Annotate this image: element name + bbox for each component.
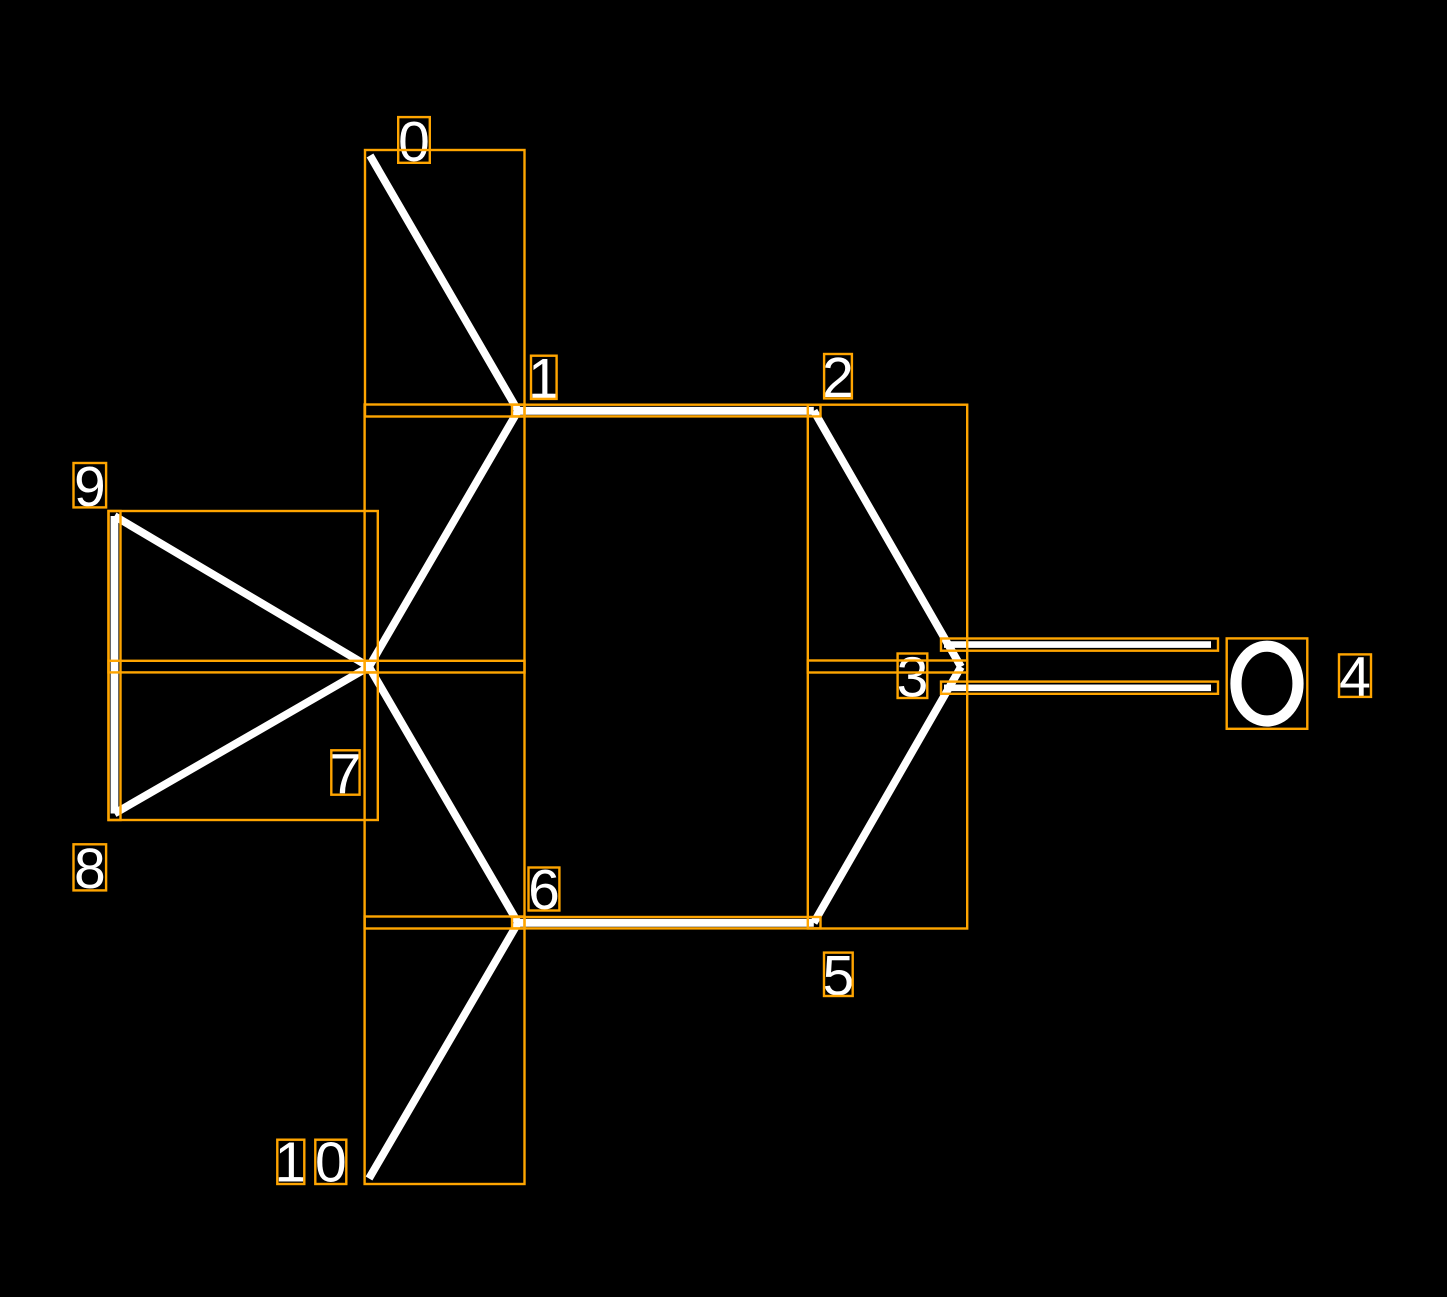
label box 5 bbox=[824, 953, 853, 996]
white molecule bonds bbox=[115, 156, 962, 1179]
box double bond top line bbox=[941, 639, 1218, 651]
bond 6-10 bbox=[369, 923, 518, 1179]
bond 5-6 bbox=[518, 919, 814, 927]
svg-text:2: 2 bbox=[822, 346, 854, 410]
box bond 0-1 bbox=[365, 150, 525, 417]
bond 2-3 bbox=[814, 411, 961, 667]
label box 10-0 bbox=[315, 1140, 346, 1184]
bond 7-1 bbox=[369, 411, 518, 667]
box bond 7-8 bbox=[109, 661, 378, 820]
label box 2 bbox=[824, 354, 852, 398]
double bond 3=4 lines bbox=[944, 645, 1211, 688]
box bond 8-9 bbox=[109, 511, 121, 820]
bond 7-9 bbox=[115, 516, 370, 667]
orange label boxes bbox=[74, 117, 1372, 1184]
orange annotation boxes (bond bounding boxes) bbox=[109, 150, 1308, 1184]
label box 4 bbox=[1339, 654, 1371, 697]
label box 7 bbox=[331, 750, 359, 794]
label box 6 bbox=[529, 868, 560, 911]
box bond 7-9 bbox=[109, 511, 378, 672]
svg-text:9: 9 bbox=[74, 455, 106, 519]
svg-text:7: 7 bbox=[330, 742, 362, 806]
svg-text:3: 3 bbox=[897, 646, 929, 710]
bond 1-2 bbox=[518, 407, 814, 415]
white atom index digits bbox=[74, 110, 1371, 1195]
label box 0 bbox=[398, 117, 430, 163]
bond 0-1 bbox=[370, 156, 518, 411]
box bond 6-7 bbox=[365, 661, 525, 929]
svg-text:8: 8 bbox=[74, 837, 106, 901]
bond 6-7 bbox=[369, 667, 518, 923]
svg-text:0: 0 bbox=[398, 110, 430, 174]
box atom O bbox=[1227, 638, 1308, 728]
box double bond bottom line bbox=[941, 682, 1218, 694]
box bond 3-5 bbox=[808, 661, 967, 929]
atom O glyph (atom 4) bbox=[1236, 646, 1298, 721]
label box 1 bbox=[531, 356, 557, 399]
label box 8 bbox=[74, 844, 107, 890]
bond 8-9 bbox=[111, 516, 119, 814]
label box 3 bbox=[898, 654, 928, 699]
box bond 1-7 bbox=[365, 405, 525, 673]
label box 10-1 bbox=[277, 1140, 304, 1184]
box bond 5-6 bbox=[512, 917, 821, 928]
box bond 2-3 bbox=[808, 405, 967, 673]
box bond 6-10 bbox=[365, 917, 525, 1185]
box bond 1-2 bbox=[512, 405, 821, 417]
bond 7-8 bbox=[115, 667, 370, 814]
label box 9 bbox=[74, 463, 107, 507]
bond 3-5 bbox=[814, 667, 961, 923]
